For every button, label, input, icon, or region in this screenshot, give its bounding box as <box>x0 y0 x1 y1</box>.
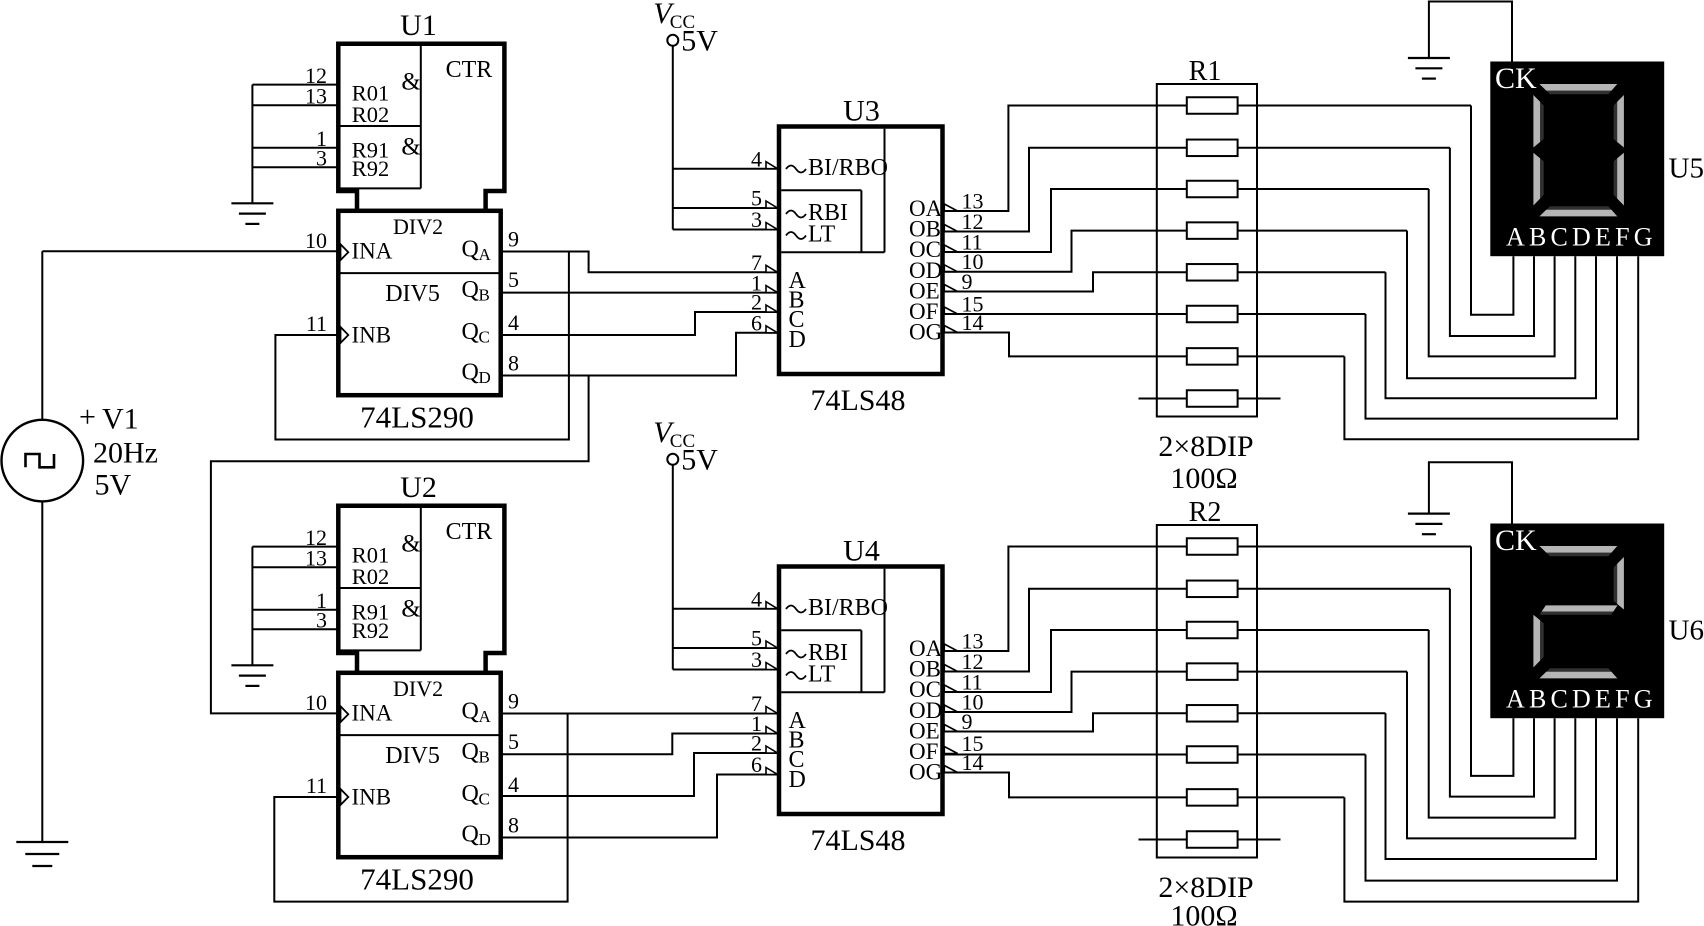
svg-text:ABCDEFG: ABCDEFG <box>1506 685 1657 714</box>
svg-text:INA: INA <box>352 239 393 264</box>
svg-text:D: D <box>479 830 491 849</box>
svg-text:13: 13 <box>305 546 327 571</box>
svg-text:5V: 5V <box>681 24 718 57</box>
svg-text:&: & <box>401 595 420 622</box>
svg-text:4: 4 <box>751 146 762 171</box>
svg-text:100Ω: 100Ω <box>1170 462 1237 495</box>
svg-text:10: 10 <box>305 228 327 253</box>
svg-text:B: B <box>479 286 490 305</box>
svg-text:OG: OG <box>909 760 942 785</box>
svg-text:5: 5 <box>508 267 519 292</box>
svg-text:Q: Q <box>462 822 479 848</box>
svg-text:A: A <box>479 707 492 726</box>
svg-text:&: & <box>401 133 420 160</box>
svg-text:3: 3 <box>316 608 327 633</box>
svg-text:U1: U1 <box>400 9 437 42</box>
svg-text:U3: U3 <box>843 95 880 128</box>
svg-text:DIV2: DIV2 <box>393 676 443 701</box>
svg-text:6: 6 <box>751 752 762 777</box>
svg-text:D: D <box>479 368 491 387</box>
svg-text:D: D <box>789 327 806 353</box>
svg-text:OG: OG <box>909 320 942 345</box>
svg-text:10: 10 <box>305 690 327 715</box>
svg-text:A: A <box>479 245 492 264</box>
svg-text:CK: CK <box>1495 62 1537 95</box>
svg-text:DIV5: DIV5 <box>385 743 440 769</box>
svg-text:&: & <box>401 69 420 96</box>
svg-text:Q: Q <box>462 739 479 765</box>
svg-text:R92: R92 <box>352 156 390 181</box>
svg-text:R2: R2 <box>1189 497 1222 528</box>
svg-text:LT: LT <box>808 222 835 248</box>
svg-text:INB: INB <box>352 785 392 810</box>
svg-text:11: 11 <box>306 311 327 336</box>
svg-text:U6: U6 <box>1669 615 1704 647</box>
svg-text:Q: Q <box>462 360 479 386</box>
svg-text:Q: Q <box>462 781 479 807</box>
svg-text:100Ω: 100Ω <box>1170 900 1237 926</box>
svg-text:C: C <box>479 790 490 809</box>
svg-text:CTR: CTR <box>446 57 493 83</box>
svg-text:+: + <box>79 401 96 434</box>
svg-text:9: 9 <box>508 689 519 714</box>
svg-text:4: 4 <box>508 310 519 335</box>
svg-text:&: & <box>401 531 420 558</box>
svg-text:D: D <box>789 767 806 793</box>
svg-text:74LS290: 74LS290 <box>360 400 474 435</box>
svg-text:5: 5 <box>508 729 519 754</box>
svg-text:74LS290: 74LS290 <box>360 862 474 897</box>
svg-text:V1: V1 <box>102 403 139 436</box>
svg-text:Q: Q <box>462 319 479 345</box>
svg-text:C: C <box>479 328 490 347</box>
svg-text:U4: U4 <box>843 535 880 568</box>
svg-text:R92: R92 <box>352 618 390 643</box>
svg-text:Q: Q <box>462 237 479 263</box>
svg-text:DIV5: DIV5 <box>385 281 440 307</box>
svg-text:U5: U5 <box>1669 153 1704 185</box>
svg-text:Q: Q <box>462 277 479 303</box>
svg-text:Q: Q <box>462 699 479 725</box>
svg-text:13: 13 <box>305 84 327 109</box>
svg-text:20Hz: 20Hz <box>93 436 158 469</box>
svg-text:U2: U2 <box>400 471 437 504</box>
svg-text:3: 3 <box>751 207 762 232</box>
svg-text:ABCDEFG: ABCDEFG <box>1506 223 1657 252</box>
svg-text:2×8DIP: 2×8DIP <box>1158 430 1253 463</box>
svg-text:4: 4 <box>508 772 519 797</box>
svg-text:4: 4 <box>751 586 762 611</box>
svg-text:8: 8 <box>508 351 519 376</box>
svg-text:8: 8 <box>508 813 519 838</box>
svg-text:5V: 5V <box>681 443 718 476</box>
svg-text:DIV2: DIV2 <box>393 214 443 239</box>
svg-text:R02: R02 <box>352 102 390 127</box>
svg-text:INA: INA <box>352 701 393 726</box>
svg-text:INB: INB <box>352 323 392 348</box>
svg-text:CK: CK <box>1495 524 1537 557</box>
svg-text:9: 9 <box>508 227 519 252</box>
svg-text:B: B <box>479 748 490 767</box>
svg-text:3: 3 <box>751 647 762 672</box>
svg-text:BI/RBO: BI/RBO <box>808 155 888 181</box>
svg-text:11: 11 <box>306 773 327 798</box>
svg-text:BI/RBO: BI/RBO <box>808 595 888 621</box>
svg-text:R1: R1 <box>1189 56 1222 87</box>
svg-text:74LS48: 74LS48 <box>810 824 905 857</box>
svg-text:CTR: CTR <box>446 519 493 545</box>
svg-text:74LS48: 74LS48 <box>810 384 905 417</box>
svg-text:6: 6 <box>751 311 762 336</box>
svg-text:R02: R02 <box>352 564 390 589</box>
svg-text:5V: 5V <box>95 468 132 501</box>
svg-text:3: 3 <box>316 146 327 171</box>
svg-text:LT: LT <box>808 662 835 688</box>
